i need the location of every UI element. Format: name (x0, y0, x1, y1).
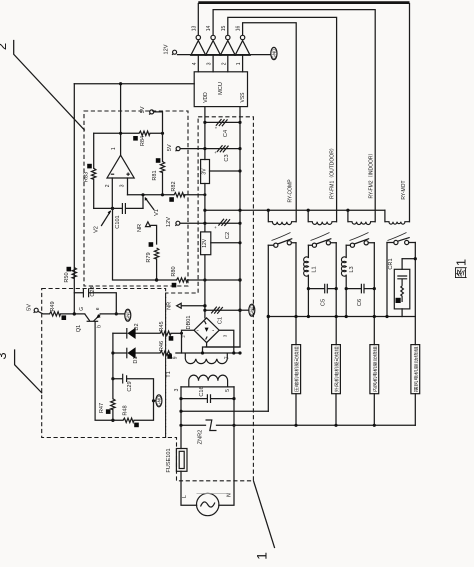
wire MCU pin4 stub (197, 55, 199, 72)
wire bridge DC- to VSS (203, 343, 241, 353)
resistor R46 (160, 351, 171, 355)
relay coil RY-FM2 (347, 210, 349, 222)
svg-text:14: 14 (206, 26, 212, 32)
svg-text:C101: C101 (115, 215, 121, 228)
relay coil RY-FM1 (307, 210, 309, 222)
svg-text:3: 3 (222, 334, 227, 337)
svg-text:2: 2 (0, 43, 9, 50)
inverter U1D pin16 (235, 35, 250, 55)
svg-text:R83: R83 (84, 172, 90, 182)
wire SW4 left leg (386, 243, 388, 317)
wire VDD vertical (204, 107, 206, 318)
wire neutral return rail (234, 424, 415, 426)
wire VSS vertical (206, 107, 240, 347)
wire pin13 riser (197, 4, 199, 35)
svg-text:3: 3 (174, 388, 180, 391)
svg-text:C4: C4 (223, 130, 229, 137)
svg-text:GND: GND (272, 48, 277, 59)
svg-text:R82: R82 (171, 181, 177, 191)
svg-text:9: 9 (173, 356, 179, 359)
wire 12V relay rail (205, 209, 385, 211)
capacitor C4 (205, 121, 240, 123)
svg-text:VDD: VDD (203, 92, 209, 103)
wire NR to DC+ node (181, 305, 205, 307)
wire bridge AC1 (left) (182, 330, 195, 353)
svg-text:e: e (95, 307, 101, 310)
svg-text:+: + (214, 225, 217, 230)
svg-text:12V: 12V (164, 44, 170, 54)
svg-text:外风机电机驱动绕组: 外风机电机驱动绕组 (333, 346, 340, 392)
diode D1 (113, 352, 160, 354)
svg-text:R84: R84 (140, 136, 146, 146)
node R80 to VSS (238, 278, 241, 281)
snubber CR1 (402, 258, 415, 260)
wire 12V terminal to reg line / C2 (180, 222, 240, 224)
wire 3V out to VSS (210, 170, 241, 172)
svg-text:RY-MOT: RY-MOT (401, 180, 407, 199)
inductor L3 (345, 245, 347, 257)
resistor R81 (162, 133, 164, 161)
svg-text:摆风电机驱动绕组: 摆风电机驱动绕组 (413, 346, 420, 392)
resistor R45 (160, 331, 171, 335)
wire load box 2 legs (335, 394, 337, 426)
node C28 right to emitter wire (115, 312, 118, 315)
resistor R82 (174, 193, 185, 197)
svg-text:5V: 5V (140, 106, 146, 113)
svg-text:C6: C6 (357, 299, 363, 306)
switch SW4 (387, 237, 415, 244)
svg-text:GND: GND (250, 305, 255, 316)
bridge rectifier DB01 (194, 318, 219, 343)
inductor L1 (307, 245, 309, 257)
wire 5V to R49 (38, 312, 49, 314)
svg-text:NR: NR (167, 302, 173, 310)
op-amp U3 (107, 155, 134, 178)
wire R84 feedback rail (94, 132, 163, 134)
svg-text:V1: V1 (154, 209, 160, 216)
svg-text:C1: C1 (218, 317, 224, 324)
node op-amp output junction (119, 82, 122, 85)
wire SW1 left leg (to live) (267, 245, 269, 411)
svg-text:D1: D1 (133, 356, 139, 363)
svg-text:GND: GND (126, 310, 131, 321)
svg-text:C28: C28 (90, 286, 96, 296)
svg-text:1: 1 (236, 62, 242, 65)
svg-text:C16: C16 (199, 386, 205, 396)
svg-text:13: 13 (191, 26, 197, 32)
capacitor C2 (218, 219, 230, 226)
svg-text:NR: NR (137, 224, 143, 232)
svg-text:GND: GND (157, 395, 162, 406)
svg-text:压缩机电机驱动绕组: 压缩机电机驱动绕组 (293, 346, 300, 392)
resistor R49 (50, 312, 61, 316)
node V2 (111, 207, 114, 210)
wire AC live vertical (181, 387, 197, 505)
resistor R48 (123, 418, 134, 422)
svg-text:3V: 3V (201, 168, 207, 175)
diode D2 (113, 332, 160, 334)
dashed box region 2 (op-amp) (84, 111, 188, 286)
node GND branch (152, 399, 155, 402)
capacitor C28 (74, 293, 116, 314)
resistor R47 (112, 379, 114, 399)
svg-text:CR1: CR1 (388, 258, 394, 269)
5V terminal (mid, to VDD rail) (176, 147, 181, 152)
node R79 bottom (155, 278, 158, 281)
switch SW3 (346, 239, 374, 248)
wire MCU pin2 stub (227, 55, 229, 72)
svg-text:1: 1 (111, 147, 117, 150)
svg-text:R79: R79 (146, 252, 152, 262)
transistor Q1 (85, 314, 101, 420)
wire op-amp output to MCU input (74, 83, 194, 85)
svg-text:T1: T1 (166, 371, 172, 378)
svg-text:1: 1 (254, 552, 270, 560)
resistor R50 (72, 268, 76, 279)
leader line region 2 (14, 41, 85, 131)
svg-text:C29: C29 (127, 381, 133, 391)
wire switched AC rail (268, 316, 415, 318)
AC source (197, 493, 219, 515)
svg-text:C5: C5 (321, 299, 327, 306)
node C29 left tap (111, 377, 114, 380)
transformer T1 secondary line (176, 352, 241, 354)
svg-text:V2: V2 (94, 226, 100, 233)
wire pin13 top bus (thick) (198, 1, 409, 4)
resistor R84 (139, 131, 150, 135)
svg-text:DB01: DB01 (186, 316, 192, 330)
wire pin16 to RY-COMP (243, 23, 297, 222)
wire Q1 emitter to GND (100, 313, 124, 315)
load box 2 (outdoor fan winding) (332, 345, 341, 394)
capacitor C101 (113, 207, 144, 209)
wire 5V terminal to VDD line (180, 148, 205, 150)
5V terminal (op-amp supply) (149, 110, 154, 115)
wire NR to R79 (150, 225, 156, 244)
dashed box region 1 (power supply) (166, 117, 254, 481)
svg-text:3: 3 (0, 352, 9, 359)
wire 12V reg out to VSS (211, 242, 240, 244)
node R84 left crossing (119, 132, 122, 135)
12V terminal (regulator input) (175, 221, 180, 226)
wire SW1 right leg (295, 243, 297, 345)
wire op-amp pin3 (127, 178, 129, 195)
relay coil RY-MOT (384, 210, 386, 222)
wire RY-MOT vertical (409, 4, 411, 222)
inverter U1C pin15 (220, 35, 235, 55)
ground GND (Q1 emitter) (125, 309, 131, 321)
svg-text:5V: 5V (167, 144, 173, 151)
svg-text:b: b (97, 325, 103, 328)
svg-text:R81: R81 (152, 170, 158, 180)
resistor R83 (93, 133, 95, 168)
svg-text:D2: D2 (134, 323, 140, 330)
node Q1 collector / R50 / C28 (73, 312, 76, 315)
wire C101 to V1 node (142, 195, 144, 209)
node D1 tap (111, 351, 114, 354)
svg-text:R80: R80 (171, 266, 177, 276)
svg-text:C2: C2 (225, 232, 231, 239)
transformer T1 primary winding (189, 375, 228, 387)
capacitor C16 (181, 398, 234, 400)
node V1 (141, 193, 144, 196)
svg-text:R45: R45 (159, 321, 165, 331)
switch SW1 (RY-COMP contact) (268, 239, 296, 248)
transformer T1 primary line (181, 386, 234, 388)
wire R80 rail to VSS (157, 279, 240, 281)
NR terminal (rectifier output) (177, 303, 182, 308)
capacitor C3 (205, 148, 240, 150)
5V terminal (driver) (34, 308, 39, 313)
wire bridge AC2 (right) (219, 330, 234, 353)
svg-text:内风机电机驱动绕组: 内风机电机驱动绕组 (372, 346, 379, 392)
svg-text:R48: R48 (123, 405, 129, 415)
varistor ZNR2 (181, 424, 234, 426)
resistor R80 (177, 278, 188, 282)
svg-text:12V: 12V (202, 238, 208, 248)
svg-text:5V: 5V (27, 304, 33, 311)
transformer T1 secondary winding (185, 353, 227, 364)
node R47 bottom (111, 419, 114, 422)
capacitor C5 (308, 288, 336, 290)
MCU U2 (194, 72, 247, 107)
inverter U1B pin14 (206, 35, 221, 55)
wire op-amp output riser (120, 84, 122, 156)
wire R45 to bridge AC1 (171, 332, 182, 334)
regulator 3V (201, 160, 210, 184)
wire 5V to R81 top (154, 112, 163, 133)
wire inverting input branch (94, 207, 113, 209)
wire R48 rail (95, 401, 153, 421)
svg-text:FUSE101: FUSE101 (166, 448, 172, 472)
svg-text:L1: L1 (311, 266, 317, 272)
wire load box 3 legs (373, 394, 375, 426)
svg-text:16: 16 (236, 26, 242, 32)
svg-text:15: 15 (221, 26, 227, 32)
12V terminal (inverter row) (172, 50, 177, 55)
wire SW4 right leg (414, 243, 416, 345)
wire pin15 to RY-FM1 (228, 17, 337, 221)
regulator 12V (201, 232, 211, 255)
svg-text:~: ~ (196, 328, 199, 333)
wire SW2 right leg (335, 243, 337, 345)
capacitor C29 (113, 379, 154, 401)
svg-text:L3: L3 (349, 266, 355, 272)
wire left feedback vertical (to R50) (73, 84, 75, 314)
relay coil RY-COMP (267, 210, 269, 222)
svg-text:图1: 图1 (454, 259, 469, 279)
svg-text:C3: C3 (224, 154, 230, 161)
ground GND (C29 net) (154, 395, 162, 407)
wire V1 rail (pin3 to 12V reg line) (128, 194, 205, 196)
svg-text:2: 2 (221, 62, 227, 65)
wire V2 node down (113, 208, 157, 280)
svg-text:L: L (182, 495, 188, 498)
fuse FUSE101 (176, 449, 187, 472)
svg-text:ZNR2: ZNR2 (198, 430, 204, 445)
svg-text:12V: 12V (166, 217, 172, 227)
svg-text:5: 5 (225, 389, 231, 392)
wire 12V supply to inverter row (178, 54, 271, 56)
svg-text:R47: R47 (99, 403, 105, 413)
ground GND (inverter row) (271, 47, 277, 59)
wire live branch to relay common (181, 410, 268, 412)
svg-text:R49: R49 (50, 301, 56, 311)
relay actuator marks (272, 233, 291, 241)
wire load box 4 legs (414, 394, 416, 426)
svg-text:R46: R46 (159, 341, 165, 351)
dashed box region 3 (driver) (42, 289, 166, 438)
wire D1 D2 common vertical (112, 333, 114, 378)
svg-text:Q1: Q1 (76, 325, 82, 332)
svg-text:~: ~ (212, 328, 215, 333)
wire MCU pin3 stub (212, 55, 214, 72)
svg-text:R50: R50 (64, 272, 70, 282)
resistor R79 (154, 248, 158, 259)
svg-text:4: 4 (192, 62, 198, 65)
svg-text:G: G (79, 307, 85, 311)
wire SW3 right leg (373, 243, 375, 345)
svg-text:3: 3 (120, 184, 126, 187)
svg-text:+: + (215, 126, 218, 131)
wire R49 to Q1 collector node (61, 313, 85, 315)
switch SW2 (308, 239, 336, 248)
load box 1 (compressor winding) (292, 345, 301, 394)
leader line region 3 (15, 350, 42, 393)
node R84 right junction (161, 132, 164, 135)
leader line region 1 (254, 481, 275, 547)
svg-text:+: + (214, 150, 217, 155)
wire AC neutral vertical (219, 387, 234, 505)
wire load box 1 bottom (295, 394, 297, 426)
svg-text:2: 2 (105, 184, 111, 187)
svg-text:RY-FM1（OUTDOOR）: RY-FM1（OUTDOOR） (330, 145, 336, 199)
wire MCU pin1 stub (242, 55, 244, 72)
load box 3 (indoor fan winding) (370, 345, 379, 394)
node R81 bottom (161, 193, 164, 196)
svg-text:RY-COMP: RY-COMP (288, 179, 294, 203)
wire op-amp pin2 (111, 178, 113, 209)
ground GND (C1) (240, 304, 255, 316)
wire pin14 to RY-FM2 (213, 10, 375, 222)
svg-text:VSS: VSS (240, 92, 246, 103)
load box 4 (swing motor winding) (411, 345, 420, 394)
inverter U1A pin13 (191, 35, 206, 55)
NR terminal (comparator ref) (146, 222, 151, 227)
svg-text:RY-FM2（INDOOR）: RY-FM2（INDOOR） (369, 150, 375, 198)
capacitor C6 (346, 288, 374, 290)
svg-text:MCU: MCU (218, 82, 224, 95)
svg-text:3: 3 (207, 62, 213, 65)
capacitor C1 (205, 309, 240, 311)
